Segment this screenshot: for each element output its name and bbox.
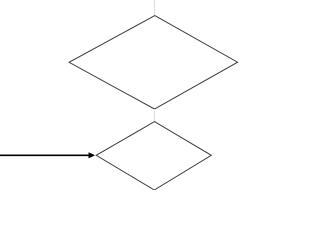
arrowhead (89, 153, 95, 158)
wire: black arrow shaft entering diamond 2 from left (0, 154, 90, 156)
wire: light gray connector into top diamond (154, 0, 156, 15)
node B: decision diamond 2 (lower) (96, 122, 211, 190)
wire: light gray connector between diamonds (153, 109, 155, 121)
node A: decision diamond 1 (upper) (69, 16, 238, 109)
